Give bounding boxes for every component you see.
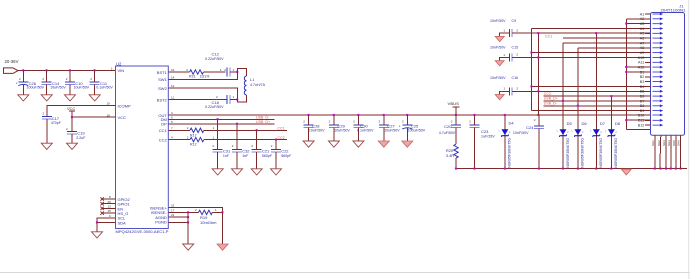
op-amp U2 MPQ4242 controller body [116,61,170,234]
wire net A7 usbdm [563,42,651,44]
node ISENSE+ R19 junction [222,211,224,213]
pin B2 connector stub [645,76,651,78]
pin A3 connector stub [645,23,651,25]
svg-text:1: 1 [503,29,505,33]
svg-text:17: 17 [171,208,175,212]
pin A2 connector stub [645,18,651,20]
svg-text:2: 2 [216,95,218,99]
svg-text:NSR05F30NXT5G: NSR05F30NXT5G [566,137,570,167]
svg-text:SDA: SDA [118,220,127,225]
svg-text:1: 1 [111,66,113,70]
svg-text:16: 16 [171,68,175,72]
wire HS_G stub no-connect [102,212,116,214]
svg-text:A1: A1 [640,12,645,16]
svg-text:D7: D7 [600,121,606,126]
svg-text:100uF/50V: 100uF/50V [27,86,45,90]
svg-text:3.4R: 3.4R [446,153,455,158]
wire net A5 CC1 [512,32,650,34]
svg-text:BST1: BST1 [157,70,168,75]
capacitor C26 [16,70,45,94]
wire ISENSE+ [168,208,222,213]
svg-text:ICOMP: ICOMP [118,103,131,108]
node main line junctions [308,114,540,116]
pin A7 connector stub [645,42,651,44]
wire PGND [168,222,188,224]
svg-text:+: + [399,125,401,129]
ground C26 [18,95,29,101]
svg-text:VIN: VIN [118,68,125,73]
svg-text:B5: B5 [640,90,645,94]
svg-text:2: 2 [509,130,511,134]
svg-text:10nF/50V: 10nF/50V [490,76,506,80]
capacitor C31 [212,119,231,169]
pin B10 connector stub [645,114,651,116]
svg-text:2: 2 [615,130,617,134]
pin A9 connector stub [645,52,651,54]
input port 20-36V [4,59,19,73]
node D5 B7 junction [562,100,564,102]
capacitor C11 [90,70,114,94]
capacitor C25 polarized [399,115,426,141]
svg-text:NSR05F30NXT5G: NSR05F30NXT5G [508,137,512,167]
pin SH4 shield stub [670,135,672,168]
pin B11 connector stub [645,119,651,121]
border bottom faint line [0,272,690,274]
ground C21 [251,169,262,175]
pin A10 connector stub [645,57,651,59]
svg-text:0.22uF/50V: 0.22uF/50V [205,105,224,109]
node DM C31 junction [217,118,219,120]
svg-text:2: 2 [567,130,569,134]
diode D4 [499,115,515,169]
pin B7 connector stub [645,100,651,102]
svg-text:A4: A4 [640,27,645,31]
svg-text:204T1100N1: 204T1100N1 [661,9,686,13]
connector J1 body [651,4,686,136]
svg-text:PGND: PGND [155,220,167,225]
svg-text:21: 21 [171,213,175,217]
svg-text:L: L [605,129,607,133]
node input junctions [22,69,95,71]
ground rail symbol [621,169,631,175]
ground C32 [232,169,243,175]
pin SH2 shield stub [660,135,661,168]
capacitor C19 [66,127,86,143]
wire net B1 gnd [626,71,650,73]
wire net B11 gnd [626,119,650,121]
svg-text:A12: A12 [638,66,645,70]
svg-text:1Ω1%: 1Ω1% [200,75,211,79]
resistor R12 [187,135,215,146]
svg-text:560pF: 560pF [262,154,273,158]
node SCL-SDA junction [96,221,98,223]
ground C31 [212,169,223,175]
svg-text:2: 2 [195,208,197,212]
svg-text:12: 12 [171,84,175,88]
svg-text:20-36V: 20-36V [5,59,19,64]
pin B9 connector stub [645,110,651,112]
svg-text:B2: B2 [640,75,645,79]
svg-text:470pF: 470pF [51,121,62,125]
svg-text:10uF/50V: 10uF/50V [309,129,325,133]
svg-text:2: 2 [516,86,518,90]
svg-text:2: 2 [212,144,214,148]
svg-text:2: 2 [329,120,331,124]
svg-text:10uF/50V: 10uF/50V [74,86,90,90]
diode D7 [590,33,606,168]
capacitor C16 [490,76,538,95]
wire net A6 [563,37,651,39]
svg-text:2: 2 [187,126,189,130]
wire ISENSE- [168,211,198,213]
wire CC1 net [204,129,287,131]
svg-text:2: 2 [232,144,234,148]
svg-text:C12: C12 [212,52,220,57]
capacitor C24 [513,115,544,169]
svg-text:C20: C20 [444,124,452,129]
svg-text:R21: R21 [189,75,196,79]
svg-text:L: L [590,129,592,133]
svg-text:A7: A7 [640,41,645,45]
svg-text:1nF: 1nF [223,154,230,158]
svg-text:B4: B4 [640,85,645,89]
wire BST2 [168,99,227,101]
diode D5 [557,43,573,169]
svg-text:0.22uF/50V: 0.22uF/50V [205,57,224,61]
svg-text:+: + [16,82,18,86]
ground C16 [495,95,504,100]
svg-text:10uF/50V: 10uF/50V [384,129,400,133]
ground C15 [495,61,504,66]
node VCC junction [71,116,73,118]
svg-text:L1: L1 [250,77,255,82]
svg-text:C31: C31 [223,148,231,153]
capacitor C18 [205,95,237,109]
wire net A9 vbus [532,52,651,54]
svg-text:10uF/50V: 10uF/50V [50,86,66,90]
wire SW1 [168,72,237,79]
capacitor C22 [271,140,292,169]
capacitor C17 [42,112,62,144]
svg-text:2: 2 [19,77,21,81]
capacitor C14 [42,70,67,94]
node CC2 C22 junction [275,139,277,141]
capacitor C28 [303,115,325,141]
ground C27 [378,141,389,147]
svg-text:2.2uF: 2.2uF [76,136,86,140]
svg-text:D6: D6 [582,121,588,126]
svg-text:1: 1 [233,68,235,72]
ground C19 [67,143,78,149]
svg-text:A11: A11 [638,61,644,65]
node PGND junction [187,221,189,223]
wire L1 bottom link [237,95,246,102]
svg-text:10mOhm: 10mOhm [200,220,217,225]
wire net A10 [512,57,650,59]
svg-text:1: 1 [220,68,222,72]
svg-text:USB_D+: USB_D+ [544,97,558,101]
svg-text:DP: DP [161,122,167,127]
wire net A4 vbus [532,28,651,30]
wire sense right vertical [222,212,224,244]
svg-text:2: 2 [353,120,355,124]
wire net B9 vbus [532,110,651,112]
wire net A12 gnd [626,66,650,68]
wire net A2 gnd [626,18,650,20]
svg-text:A8: A8 [640,46,645,50]
power symbol VCC [67,106,76,117]
svg-text:R12: R12 [190,143,197,147]
svg-text:1: 1 [233,95,235,99]
svg-text:VCC: VCC [67,106,76,111]
wire OUT VBUS main line [168,114,650,116]
wire input rail [18,69,116,71]
svg-text:9: 9 [109,214,111,218]
pin B5 connector stub [645,90,651,92]
pin A8 connector stub [645,47,651,49]
node cap bus junctions [537,32,539,92]
svg-text:2: 2 [224,68,226,72]
capacitor C29 [329,115,351,141]
svg-text:CC2: CC2 [159,138,168,143]
ground C22 [271,169,282,175]
svg-text:C22: C22 [281,148,289,153]
svg-text:B9: B9 [640,109,645,113]
resistor R21 [186,68,226,79]
ground C14 [41,95,52,101]
wire CC1 pin to R17 [168,129,190,131]
wire L1 top link [237,68,246,76]
svg-text:2: 2 [516,28,518,32]
svg-text:B10: B10 [638,113,645,117]
node rail junctions [455,168,682,170]
diode D6 [572,48,588,169]
svg-text:B7: B7 [640,99,645,103]
svg-text:2: 2 [42,77,44,81]
wire net B7 usbdm [544,100,651,102]
svg-text:VBUS: VBUS [448,101,460,106]
svg-text:1: 1 [503,87,505,91]
svg-text:C23: C23 [481,129,489,134]
node AGND junction [187,216,189,218]
node DP C32 junction [236,123,238,125]
wire BST1 [168,71,189,73]
wire ground rail [456,168,687,170]
svg-text:2: 2 [186,68,188,72]
svg-text:SH4: SH4 [667,140,671,146]
capacitor C27 [379,115,401,141]
svg-text:2: 2 [582,130,584,134]
svg-text:USB_D+: USB_D+ [256,120,270,124]
wire GPIO2 stub no-connect [102,198,116,200]
wire CC2 pin to R12 [168,139,190,141]
svg-text:A3: A3 [640,22,645,26]
pin B6 connector stub [645,95,651,97]
ground C11 [89,95,100,101]
node D6 B8 junction [577,105,579,107]
svg-text:SW2: SW2 [158,86,167,91]
svg-text:2: 2 [516,53,518,57]
svg-text:C16: C16 [512,76,519,80]
svg-text:SH1: SH1 [651,140,655,146]
svg-text:D5: D5 [567,121,573,126]
wire ICOMP to C17 [47,106,116,117]
svg-text:CC1: CC1 [545,35,552,39]
pin B3 connector stub [645,81,651,83]
svg-text:SH3: SH3 [662,140,666,146]
svg-text:100uF/50V: 100uF/50V [408,129,426,133]
resistor R17 [187,126,215,137]
svg-text:B3: B3 [640,80,645,84]
svg-text:2: 2 [600,130,602,134]
svg-text:A10: A10 [638,56,645,60]
pin SH6 shield stub [680,135,682,168]
pin A4 connector stub [645,28,651,30]
svg-text:10nF/50V: 10nF/50V [490,46,506,50]
pin SH3 shield stub [665,135,667,168]
svg-text:1nF: 1nF [242,154,249,158]
svg-text:10uF/50V: 10uF/50V [334,129,350,133]
svg-text:15: 15 [108,209,112,213]
power symbol VBUS [448,101,460,115]
pin A6 connector stub [645,37,651,39]
svg-text:CC1: CC1 [159,128,168,133]
pin B1 connector stub [645,71,651,73]
svg-text:0.1uF/50V: 0.1uF/50V [96,86,113,90]
ground C10 [65,95,76,101]
wire VCC pin [72,116,116,118]
wire AGND [168,216,188,218]
ground C29 [328,141,339,147]
node D8 B6 junction [610,95,612,97]
svg-text:1: 1 [503,53,505,57]
svg-text:2: 2 [402,120,404,124]
resistor R20 [446,144,458,169]
resistor R19 [195,208,223,225]
svg-text:14: 14 [171,75,175,79]
pin SH1 shield stub [654,135,656,168]
svg-text:USB_D-: USB_D- [544,102,558,106]
svg-text:C9: C9 [512,19,517,23]
wire net A8 sbu [578,47,651,49]
capacitor C9 [490,19,538,37]
svg-text:NSR05F30NXT5G: NSR05F30NXT5G [581,137,585,167]
node VBUS bus junctions [530,52,532,88]
wire vertical gnd bus [625,19,627,130]
node D7 A5 junction [595,32,597,34]
ground C25 [402,141,413,147]
svg-text:C24: C24 [526,125,534,130]
svg-text:1: 1 [213,126,215,130]
wire vertical VBUS bus [531,29,533,111]
svg-text:2: 2 [90,77,92,81]
svg-text:B6: B6 [640,95,645,99]
wire DP net USB_D+ [168,123,274,125]
svg-text:1uF/35V: 1uF/35V [481,135,495,139]
svg-text:B8: B8 [640,104,645,108]
svg-text:SH5: SH5 [672,140,676,146]
svg-text:B12: B12 [638,124,645,128]
ground C28 [303,141,314,147]
pin B8 connector stub [645,105,651,107]
svg-text:3: 3 [171,111,173,115]
svg-text:A9: A9 [640,51,645,55]
svg-text:SW1: SW1 [158,77,167,82]
svg-text:L: L [572,129,574,133]
border right faint line [688,0,690,279]
ground C9 [495,36,504,41]
pin A12 connector stub [645,66,651,68]
pin A11 connector stub [645,61,651,63]
svg-text:D8: D8 [615,121,621,126]
svg-text:BST2: BST2 [157,98,168,103]
svg-text:D4: D4 [509,120,515,125]
wire net B8 sbu [544,105,651,107]
svg-text:A5: A5 [640,32,645,36]
svg-text:C21: C21 [262,148,270,153]
capacitor C12 [205,52,237,77]
wire net A3 [626,23,650,25]
capacitor C21 [251,130,272,169]
svg-text:B1: B1 [640,70,645,74]
svg-text:CC1: CC1 [277,127,284,131]
svg-text:L: L [557,129,559,133]
svg-text:560pF: 560pF [281,154,292,158]
svg-text:C15: C15 [512,46,519,50]
svg-text:A2: A2 [640,17,645,21]
wire DM net USB_D- [168,118,274,120]
wire net B6 usbdp [544,95,651,97]
capacitor C32 [232,124,251,169]
svg-text:4.7uF/50V: 4.7uF/50V [439,131,456,135]
capacitor C23 [469,115,495,169]
svg-text:L: L [499,129,501,133]
node SW2-C18 junction [236,99,238,101]
svg-text:2: 2 [534,118,536,122]
svg-text:CC2: CC2 [277,136,284,140]
wire EN stub no-connect [102,207,116,209]
capacitor C10 [65,70,90,94]
pin A5 connector stub [645,32,651,34]
wire CC2 net [204,139,287,141]
wire vertical cap bus [537,33,539,115]
wire GPIO1 stub no-connect [102,203,116,205]
node CC1 C21 junction [256,129,258,131]
pin B12 connector stub [645,124,651,126]
pin SH5 shield stub [675,135,677,168]
wire SW2 [168,88,237,100]
ground C17 [41,143,52,149]
svg-text:2: 2 [251,144,253,148]
svg-text:VCC: VCC [118,115,127,120]
node gnd bus junctions [625,23,627,122]
wire VCC to C19 [71,117,73,131]
svg-text:7: 7 [171,126,173,130]
ground sense right [217,244,228,250]
svg-text:2: 2 [66,77,68,81]
svg-text:2: 2 [303,120,305,124]
diode D8 [605,96,621,169]
pin A1 connector stub [645,13,651,15]
svg-text:10nF/50V: 10nF/50V [490,19,506,23]
capacitor C15 [490,46,538,62]
svg-text:2: 2 [66,127,68,131]
ground C30 [353,141,364,147]
svg-text:SH6: SH6 [677,140,681,146]
svg-text:USB_D-: USB_D- [256,116,270,120]
svg-text:0.1uF/50V: 0.1uF/50V [357,129,374,133]
node SW1-C12 junction [236,71,238,73]
